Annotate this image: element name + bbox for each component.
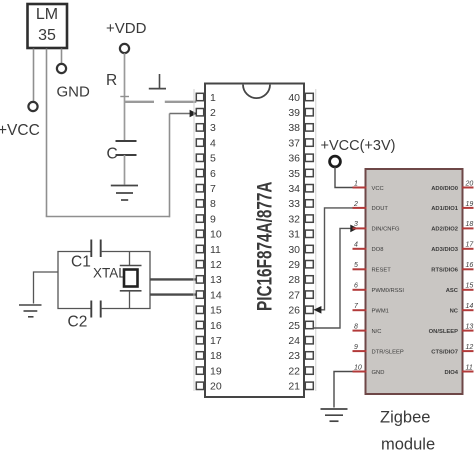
svg-text:12: 12 <box>210 259 222 271</box>
svg-text:16: 16 <box>466 262 474 269</box>
ground (crystal) <box>19 305 42 317</box>
svg-text:31: 31 <box>288 229 300 241</box>
svg-text:LM: LM <box>36 6 58 23</box>
svg-text:DTR/SLEEP: DTR/SLEEP <box>372 349 404 355</box>
U1 left pin pads (1-20) <box>196 93 203 389</box>
svg-text:2: 2 <box>353 201 358 208</box>
svg-text:+VCC(+3V): +VCC(+3V) <box>321 138 396 154</box>
capacitor C plates <box>116 102 137 185</box>
U3 right pin stubs 20-11 <box>462 188 474 372</box>
wire LM35 pin1 lead to +VCC terminal <box>33 49 35 102</box>
svg-text:C: C <box>107 146 118 163</box>
switch S1 push-button (reset) <box>149 74 166 89</box>
wire MCLR to U1 pin 1 (right of switch) <box>165 101 197 103</box>
power +VDD label <box>106 20 147 37</box>
svg-text:30: 30 <box>288 244 300 256</box>
svg-text:39: 39 <box>288 107 300 119</box>
svg-text:Zigbee: Zigbee <box>380 409 430 427</box>
svg-text:ASC: ASC <box>446 288 459 294</box>
svg-text:PWM1: PWM1 <box>372 309 389 315</box>
wire osc loop left + top to C1 <box>58 252 91 309</box>
svg-text:21: 21 <box>288 381 300 393</box>
svg-text:7: 7 <box>354 303 359 310</box>
svg-text:28: 28 <box>288 274 300 286</box>
U3 left pin labels <box>372 186 405 376</box>
resistor R (labelled wire) <box>106 72 129 97</box>
svg-text:18: 18 <box>210 350 222 362</box>
wire U1 pin 25 TX to Zigbee DIN (pin3) <box>314 225 358 328</box>
svg-text:DO8: DO8 <box>372 247 384 253</box>
svg-text:26: 26 <box>288 305 300 317</box>
svg-text:22: 22 <box>288 365 300 377</box>
wire OSC2 tap to U1 pin 14 <box>150 293 196 295</box>
capacitor C2 <box>68 301 101 331</box>
svg-text:+VDD: +VDD <box>106 20 147 37</box>
svg-text:10: 10 <box>210 229 222 241</box>
svg-text:GND: GND <box>372 370 385 376</box>
svg-text:36: 36 <box>288 153 300 165</box>
svg-text:13: 13 <box>466 323 474 330</box>
sensor U2 LM35 body <box>28 4 68 48</box>
node GND terminal circle <box>57 64 66 73</box>
svg-text:9: 9 <box>210 213 216 225</box>
svg-text:3: 3 <box>210 122 216 134</box>
svg-text:15: 15 <box>466 283 474 290</box>
svg-text:17: 17 <box>210 335 222 347</box>
svg-text:R: R <box>106 72 117 89</box>
svg-text:NC: NC <box>450 309 459 315</box>
svg-text:18: 18 <box>466 221 474 228</box>
module U3 Zigbee body <box>366 169 463 394</box>
U1 part label PIC16F874A/877A <box>252 182 276 311</box>
svg-text:14: 14 <box>466 303 474 310</box>
ground under C <box>111 186 138 201</box>
wire Zigbee GND (pin10) to ground <box>334 372 353 408</box>
label +VCC <box>0 122 40 139</box>
svg-text:37: 37 <box>288 137 300 149</box>
svg-text:C2: C2 <box>68 314 88 331</box>
svg-text:CTS/DIO7: CTS/DIO7 <box>431 349 458 355</box>
svg-text:6: 6 <box>210 168 216 180</box>
svg-text:11: 11 <box>210 244 221 256</box>
svg-text:14: 14 <box>210 289 222 301</box>
svg-text:RESET: RESET <box>372 268 392 274</box>
svg-text:24: 24 <box>288 335 300 347</box>
wire +VCC(+3V) to Zigbee pin 1 <box>335 167 353 188</box>
U1 right pin pads (40-21) <box>305 93 313 389</box>
svg-text:23: 23 <box>288 350 300 362</box>
svg-text:2: 2 <box>210 107 216 119</box>
svg-text:19: 19 <box>466 201 474 208</box>
crystal XTAL <box>93 252 142 309</box>
svg-text:PIC16F874A/877A: PIC16F874A/877A <box>252 182 276 311</box>
U1 pin numbers right 40-21 <box>288 92 300 393</box>
svg-text:13: 13 <box>210 274 222 286</box>
svg-text:35: 35 <box>38 27 56 44</box>
svg-text:32: 32 <box>288 213 300 225</box>
svg-text:25: 25 <box>288 320 300 332</box>
svg-text:+VCC: +VCC <box>0 122 40 139</box>
wire LM35 Vout down <box>46 49 48 217</box>
wire +VDD down to R <box>124 53 126 102</box>
svg-text:4: 4 <box>210 137 216 149</box>
capacitor C1 <box>71 240 101 271</box>
svg-text:27: 27 <box>288 289 300 301</box>
svg-text:10: 10 <box>354 364 362 371</box>
label GND <box>57 84 91 101</box>
svg-text:AD3/DIO3: AD3/DIO3 <box>431 247 459 253</box>
svg-text:1: 1 <box>354 180 358 187</box>
node +VCC(+3V) terminal circle <box>330 156 341 167</box>
svg-text:19: 19 <box>210 365 222 377</box>
svg-text:4: 4 <box>354 242 358 249</box>
svg-text:33: 33 <box>288 198 300 210</box>
wire osc loop right <box>101 252 150 309</box>
svg-text:RTS/DIO6: RTS/DIO6 <box>431 268 459 274</box>
svg-text:29: 29 <box>288 259 300 271</box>
svg-text:8: 8 <box>354 323 358 330</box>
svg-text:20: 20 <box>210 381 222 393</box>
svg-text:8: 8 <box>210 198 216 210</box>
label Zigbee module title <box>380 409 435 450</box>
svg-text:9: 9 <box>354 344 358 351</box>
svg-text:15: 15 <box>210 305 222 317</box>
svg-text:AD0/DIO0: AD0/DIO0 <box>431 186 458 192</box>
U3 right pin labels <box>429 186 459 376</box>
svg-text:XTAL: XTAL <box>93 266 126 281</box>
IC U1 PIC16F874A/877A body <box>205 84 304 398</box>
U1 pin numbers left 1-20 <box>210 92 222 393</box>
svg-text:7: 7 <box>210 183 216 195</box>
svg-text:DIN/CNFG: DIN/CNFG <box>372 227 401 233</box>
svg-text:34: 34 <box>288 183 300 195</box>
node +VDD terminal circle <box>120 44 129 53</box>
svg-text:5: 5 <box>210 153 216 165</box>
U1 pad guide lines <box>194 89 316 391</box>
wire Vout horizontal run <box>46 216 170 218</box>
svg-text:6: 6 <box>354 283 358 290</box>
svg-text:N/C: N/C <box>372 329 382 335</box>
svg-text:20: 20 <box>465 180 474 187</box>
svg-text:AD1/DIO1: AD1/DIO1 <box>431 206 459 212</box>
power +VCC(+3V) label <box>321 138 396 154</box>
svg-text:GND: GND <box>57 84 91 101</box>
svg-text:PWM0/RSSI: PWM0/RSSI <box>372 288 405 294</box>
wire into U1 pin 2 (RA0/AN0) <box>170 110 198 118</box>
svg-text:40: 40 <box>288 92 300 104</box>
wire osc ground branch <box>34 272 59 304</box>
svg-text:module: module <box>381 436 435 450</box>
svg-text:35: 35 <box>288 168 300 180</box>
svg-text:C1: C1 <box>71 254 91 271</box>
wire LM35 pin3 lead to GND terminal <box>61 49 63 64</box>
svg-text:17: 17 <box>466 242 474 249</box>
ground (Zigbee) <box>321 409 348 421</box>
svg-text:38: 38 <box>288 122 300 134</box>
svg-text:5: 5 <box>354 262 358 269</box>
svg-text:1: 1 <box>210 92 216 104</box>
wire Vout rise to RA0 <box>169 114 171 218</box>
U3 left pin numbers 1-10 <box>353 180 362 371</box>
svg-text:11: 11 <box>466 364 473 371</box>
svg-text:12: 12 <box>466 344 474 351</box>
wire OSC1 tap to U1 pin 13 <box>150 278 196 280</box>
svg-text:DIO4: DIO4 <box>444 370 458 376</box>
wire MCLR node horizontal (left of switch) <box>125 101 155 103</box>
U3 right pin numbers 20-11 <box>465 180 474 371</box>
svg-text:AD2/DIO2: AD2/DIO2 <box>431 227 458 233</box>
U3 left pin stubs 1-10 <box>353 188 367 372</box>
node +VCC terminal circle <box>28 102 37 111</box>
svg-text:DOUT: DOUT <box>372 206 389 212</box>
svg-text:VCC: VCC <box>372 186 384 192</box>
label C <box>107 146 118 163</box>
svg-text:16: 16 <box>210 320 222 332</box>
wire Zigbee DOUT (pin2) to U1 pin 26 RX <box>314 208 353 314</box>
svg-text:ON/SLEEP: ON/SLEEP <box>429 329 458 335</box>
svg-text:3: 3 <box>354 221 358 228</box>
